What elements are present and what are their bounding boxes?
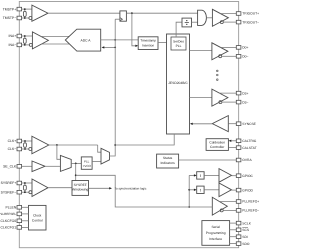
node refclk branch xyxy=(75,163,77,165)
pin TMSTP- xyxy=(17,16,22,20)
wire TMSTP buffer to flip-flop xyxy=(48,12,120,14)
pin GPIOC xyxy=(236,174,241,178)
wire D0- xyxy=(222,55,237,57)
wire into t-box 1 xyxy=(189,174,195,176)
wire flip-flop output to gate G1 xyxy=(126,12,197,14)
buffer U8 GPIOD xyxy=(219,183,232,197)
buffer A4 SE_CLK input buffer xyxy=(32,161,45,172)
buffer U7 GPIOC xyxy=(219,169,232,183)
wire clock into ADC A xyxy=(103,46,115,48)
wire CLKCFG1 xyxy=(22,226,29,228)
wire clock to JESD interface xyxy=(115,134,174,145)
wire mux M2 output clock xyxy=(110,19,116,156)
box Timestamp Insertion xyxy=(138,37,158,50)
wire GPIOC pin xyxy=(232,175,237,177)
pin GPIOD xyxy=(236,188,241,192)
pin TMSTP+ xyxy=(17,7,22,11)
box SerDes PLL xyxy=(171,37,186,50)
wire refclk to PLLREFO driver xyxy=(76,175,213,207)
wire SerDes PLL to divider xyxy=(176,22,182,37)
wire CLK+ to buffer A3 xyxy=(22,140,32,142)
pin D3- xyxy=(236,100,241,104)
wire INA+ to buffer A2 xyxy=(22,35,33,37)
wire gate G1 to TRIGOUT driver xyxy=(206,17,212,19)
pin TRIGOUT+ xyxy=(236,12,241,16)
pin PLLEN xyxy=(17,206,22,210)
flip-flop U2 timestamp latch xyxy=(120,11,127,21)
node GPIOD branch xyxy=(188,189,190,191)
svg-text:ADC A: ADC A xyxy=(81,39,92,43)
svg-text:Status: Status xyxy=(163,156,173,160)
node TMSTP- resistor tap xyxy=(24,17,26,19)
svg-text:SDO: SDO xyxy=(242,242,250,246)
wire CLK branch down to mux M1 xyxy=(57,145,61,159)
svg-text:SYSREF+: SYSREF+ xyxy=(1,181,17,185)
buffer A2 INA input buffer xyxy=(32,32,48,49)
wire CLKCFG0 xyxy=(22,220,29,222)
arrow to synchronization logic xyxy=(109,187,112,189)
driver U9 PLLREFO xyxy=(212,197,227,215)
svg-text:CLK+: CLK+ xyxy=(8,139,17,143)
arrow into t-box 2 xyxy=(194,189,197,191)
pin SDI xyxy=(236,235,241,239)
svg-text:CALSTAT: CALSTAT xyxy=(242,146,256,150)
arrow CALTRIG into box xyxy=(229,140,232,142)
node refclk GPIO tap xyxy=(188,206,190,208)
node CLK+ resistor tap xyxy=(24,140,26,142)
wire SYSREF- to buffer A5 bubble xyxy=(22,191,29,193)
box Calibration Controller xyxy=(206,139,228,151)
svg-text:PLLEN: PLLEN xyxy=(5,206,16,210)
wire GPIOD pin xyxy=(232,189,237,191)
node CLK- resistor tap xyxy=(24,148,26,150)
node refclk to PLLREFO branch xyxy=(75,174,77,176)
svg-text:SerDes: SerDes xyxy=(173,40,184,44)
svg-text:CALTRIG: CALTRIG xyxy=(242,139,256,143)
wire timestamp branch down to Timestamp Insertion xyxy=(132,13,137,46)
pin D0- xyxy=(236,55,241,59)
pin CLKCFG1 xyxy=(17,226,22,230)
resistor termination TMSTP xyxy=(23,11,26,16)
svg-text:Programming: Programming xyxy=(206,231,226,235)
svg-text:GPIOD: GPIOD xyxy=(242,188,253,192)
t-box 2 xyxy=(197,186,204,193)
svg-text:TRIGOUT−: TRIGOUT− xyxy=(242,20,259,24)
wire Timestamp Insertion to JESD interface xyxy=(158,42,167,44)
svg-text:PLLREFO−: PLLREFO− xyxy=(242,209,259,213)
resistor termination SYSREF xyxy=(24,185,27,190)
resistor termination INA xyxy=(23,38,26,43)
wire TRIGOUT- xyxy=(223,21,236,23)
pin SYSREF- xyxy=(17,190,22,194)
svg-text:PLLREFO+: PLLREFO+ xyxy=(242,200,259,204)
box Status Indicators xyxy=(157,154,179,168)
arrow clock into ADC A xyxy=(102,46,105,48)
wire PLLREFO+ xyxy=(219,201,236,203)
svg-text:SYNCSE: SYNCSE xyxy=(242,122,256,126)
wire divider to gate G1 xyxy=(192,21,198,23)
box JESD204B/C interface xyxy=(167,34,190,134)
wire SDI xyxy=(230,236,237,238)
svg-text:D3+: D3+ xyxy=(242,91,248,95)
node INA- resistor tap xyxy=(24,44,26,46)
wire buffer A2 minus output to ADC A xyxy=(42,43,70,45)
driver U3 TRIGOUT xyxy=(212,9,228,26)
wire CALTRIG into Calibration Controller xyxy=(230,140,236,142)
svg-text:D0−: D0− xyxy=(242,55,248,59)
wire buffer A2 plus output to ADC A xyxy=(41,35,69,37)
svg-text:Calibration: Calibration xyxy=(209,140,225,144)
box Serial Programming Interface xyxy=(202,221,230,246)
svg-text:INA−: INA− xyxy=(9,43,17,47)
pin CLKCFG0 xyxy=(17,219,22,223)
wire SYSREF+ to buffer A5 xyxy=(22,182,32,184)
svg-text:t: t xyxy=(200,187,202,192)
divider box xyxy=(182,18,192,27)
svg-text:t: t xyxy=(200,173,202,178)
svg-text:Insertion: Insertion xyxy=(142,44,154,48)
pin SYNCSE xyxy=(236,122,241,126)
wire SE_CLK to buffer A4 xyxy=(22,165,32,167)
wire PLLREFO- xyxy=(223,209,236,211)
ADC A converter xyxy=(65,29,100,51)
pin D3+ xyxy=(236,91,241,95)
wire JESD to D0 driver xyxy=(190,49,212,51)
pin INA- xyxy=(17,43,22,47)
wire CLK buffer output xyxy=(49,144,98,146)
wire PLLEN xyxy=(22,206,29,208)
svg-text:Control: Control xyxy=(32,218,43,222)
svg-text:TMSTP+: TMSTP+ xyxy=(3,7,16,11)
wire refclk down from mux M1 xyxy=(75,163,77,180)
node INA+ resistor tap xyxy=(24,35,26,37)
svg-text:SE_CLK: SE_CLK xyxy=(3,165,17,169)
driver U5 D3 xyxy=(212,89,228,106)
wire mux M1 to PLL xyxy=(71,162,81,164)
arrow into t-box 1 xyxy=(194,174,197,176)
pin PLLREFSEL xyxy=(17,212,22,216)
resistor termination CLK xyxy=(24,143,27,148)
pin SDO xyxy=(236,242,241,246)
buffer U6 SYNCSE receiver xyxy=(212,116,228,132)
node TMSTP+ resistor tap xyxy=(24,8,26,10)
svg-text:SCLK: SCLK xyxy=(242,221,251,225)
node SYSREF+ resistor tap xyxy=(24,182,26,184)
wire ADC A data output to Timestamp Insertion xyxy=(101,39,139,41)
t-box 1 xyxy=(197,172,204,179)
pin CLK+ xyxy=(17,139,22,143)
svg-text:Windowing: Windowing xyxy=(72,188,88,192)
wire SYSREF buffer to windowing box xyxy=(48,187,72,189)
wire D3+ xyxy=(219,92,236,94)
wire into t-box 2 xyxy=(189,189,195,191)
box SYSREF Windowing xyxy=(72,181,89,196)
svg-text:PLL: PLL xyxy=(176,44,182,48)
svg-text:SDI: SDI xyxy=(242,235,248,239)
wire SYNCSE pin to buffer xyxy=(228,123,236,125)
wire D3- xyxy=(222,101,236,103)
pin CALTRIG xyxy=(236,139,241,143)
node SYSREF- resistor tap xyxy=(24,191,26,193)
wire TMSTP+ to buffer A1 xyxy=(22,8,32,10)
node clock data crossing xyxy=(114,39,116,41)
arrow SYNCSE into JESD xyxy=(190,123,193,125)
ellipsis serial lanes xyxy=(217,70,219,72)
pin SYSREF+ xyxy=(17,181,22,185)
svg-text:Interface: Interface xyxy=(209,237,222,241)
svg-text:SCS: SCS xyxy=(242,228,250,232)
wire t-box 2 to buffer U8 xyxy=(204,189,219,191)
svg-text:Serial: Serial xyxy=(211,225,220,229)
pin TRIGOUT- xyxy=(236,20,241,24)
wire GPIO branch vertical xyxy=(188,175,190,207)
node timestamp branch xyxy=(131,12,133,14)
wire PLLREFSEL xyxy=(22,213,29,215)
svg-text:PLL: PLL xyxy=(84,159,90,163)
svg-text:SYSREF: SYSREF xyxy=(74,183,87,187)
wire INA- to buffer A2 bubble xyxy=(22,44,30,46)
pin CLK- xyxy=(17,147,22,151)
svg-text:To synchronization logic: To synchronization logic xyxy=(115,186,147,190)
svg-text:TMSTP−: TMSTP− xyxy=(3,16,16,20)
box Clock Control xyxy=(29,205,47,230)
svg-text:+VCO: +VCO xyxy=(83,164,92,168)
wire Status Indicators to OVRA pin xyxy=(179,159,237,161)
svg-text:D3−: D3− xyxy=(242,100,248,104)
svg-text:Timestamp: Timestamp xyxy=(140,39,156,43)
svg-text:OVRA: OVRA xyxy=(242,158,252,162)
wire clock to flip-flop xyxy=(115,18,120,20)
pin PLLREFO+ xyxy=(236,200,241,204)
pin SCS xyxy=(236,228,241,232)
buffer U1 TMSTP input buffer xyxy=(32,5,48,21)
svg-text:D0+: D0+ xyxy=(242,46,248,50)
gate G1 trigger AND gate xyxy=(198,10,207,25)
buffer A3 CLK input buffer xyxy=(32,136,49,154)
wire SDO xyxy=(230,243,237,245)
box PLL VCO xyxy=(81,157,92,169)
wire SE_CLK buffer to mux M1 xyxy=(45,165,60,167)
wire SCS xyxy=(230,229,237,231)
arrow into Timestamp Insertion xyxy=(135,45,138,47)
wire CALSTAT from Calibration Controller xyxy=(228,147,236,149)
wire D0+ xyxy=(221,46,237,48)
node clock to JESD branch xyxy=(114,144,116,146)
pin INA+ xyxy=(17,34,22,38)
pin PLLREFO- xyxy=(236,209,241,213)
wire CLK bypass into mux M2 xyxy=(98,145,101,152)
svg-text:CLKCFG1: CLKCFG1 xyxy=(1,226,17,230)
svg-text:INA+: INA+ xyxy=(9,34,17,38)
node clock branch to ADC A xyxy=(114,47,116,49)
wire t-box 1 to buffer U7 xyxy=(204,174,219,176)
svg-text:CLKCFG0: CLKCFG0 xyxy=(1,219,17,223)
svg-text:Indicators: Indicators xyxy=(160,161,175,165)
pin SE_CLK xyxy=(17,165,22,169)
svg-text:Clock: Clock xyxy=(33,214,42,218)
pin OVRA xyxy=(236,158,241,162)
svg-text:SYSREF−: SYSREF− xyxy=(1,190,17,194)
buffer A5 SYSREF input buffer xyxy=(32,179,48,197)
svg-text:PLLREFSEL: PLLREFSEL xyxy=(0,212,16,216)
svg-text:JESD204B/C: JESD204B/C xyxy=(168,81,188,85)
mux M2 clock select xyxy=(101,148,110,164)
wire TRIGOUT+ xyxy=(220,13,236,15)
mux M1 reference select xyxy=(60,155,71,171)
svg-text:CLK−: CLK− xyxy=(8,147,17,151)
pin SCLK xyxy=(236,221,241,225)
node CLK branch to mux M1 xyxy=(56,144,58,146)
wire PLL to mux M2 xyxy=(92,161,101,163)
svg-text:GPIOC: GPIOC xyxy=(242,174,253,178)
pin D0+ xyxy=(236,46,241,50)
wire SYSREF Windowing output xyxy=(89,187,110,189)
svg-text:Controller: Controller xyxy=(210,145,225,149)
wire SYNCSE buffer to JESD xyxy=(192,123,213,125)
wire CLK- to buffer A3 bubble xyxy=(22,148,29,150)
chip outline border xyxy=(19,2,238,248)
svg-text:TRIGOUT+: TRIGOUT+ xyxy=(242,12,259,16)
pin CALSTAT xyxy=(236,146,241,150)
wire SCLK xyxy=(230,222,237,224)
driver U4 D0 xyxy=(212,43,228,60)
wire TMSTP- to buffer A1 bubble xyxy=(22,17,29,19)
wire JESD to D3 driver xyxy=(190,96,212,98)
